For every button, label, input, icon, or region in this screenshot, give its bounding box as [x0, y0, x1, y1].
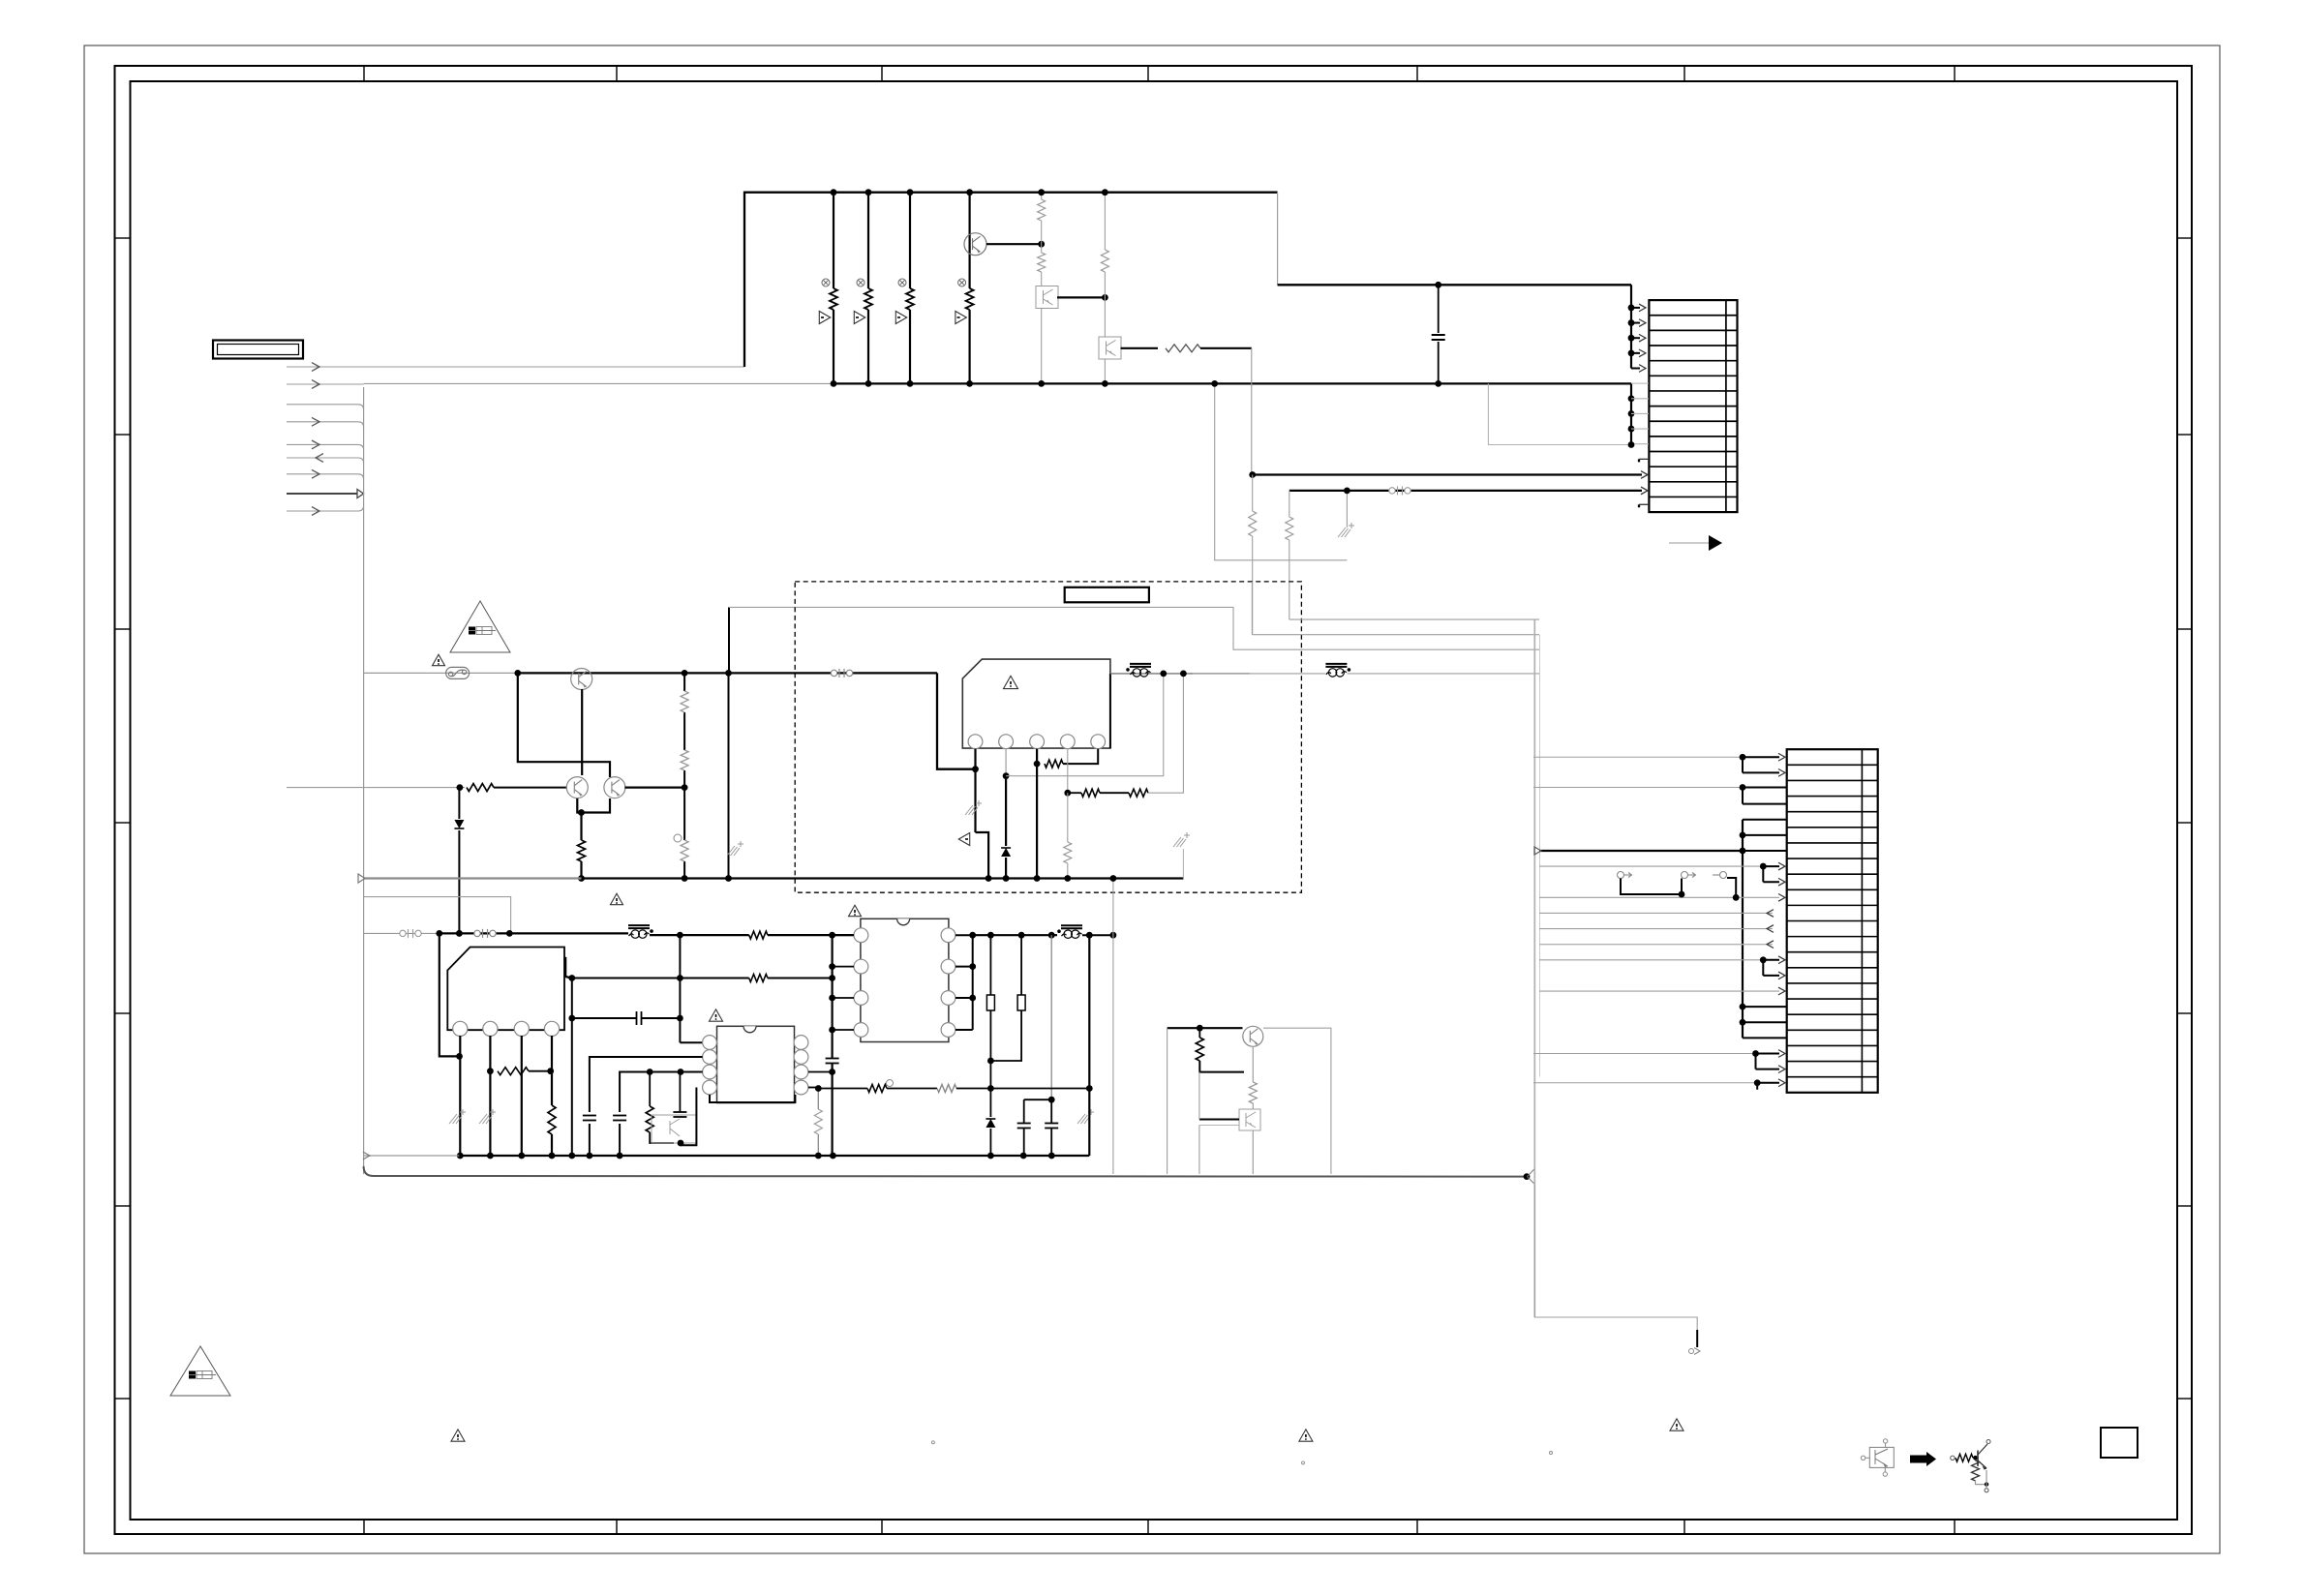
wire bus1-end riser — [1088, 935, 1090, 1156]
wire bottom stub — [1534, 1185, 1697, 1344]
speck dot 1 — [931, 1441, 934, 1444]
fusible resistor R1 — [822, 279, 830, 286]
resistor R8 — [681, 691, 688, 712]
warning triangle bottom 3 — [1670, 1419, 1683, 1430]
transformer T2 — [1325, 663, 1347, 665]
transistor Q2 — [566, 777, 588, 798]
speck dot 2 — [1302, 1461, 1305, 1464]
chassis ground G-sense — [1346, 491, 1348, 527]
fuse F1 — [446, 667, 470, 678]
wire fusible-resistor branch 1 — [833, 193, 834, 288]
resistor R-pin4gnd — [1067, 793, 1069, 842]
row2 line — [572, 978, 749, 979]
wire sense row — [867, 1085, 887, 1093]
snubber line right — [1193, 673, 1325, 675]
speck dot 3 — [1550, 1452, 1553, 1455]
wire stby top — [1168, 1027, 1243, 1029]
wire PC2 output drop — [1251, 348, 1253, 475]
wire IC1 supply — [440, 933, 460, 1056]
wire harness line 3 — [287, 404, 358, 406]
warning triangle IC2 — [849, 905, 862, 916]
IC2 body — [861, 918, 949, 1041]
wire CN2 rows20-21 — [1533, 1053, 1756, 1055]
wire PC3 input — [1199, 1119, 1239, 1121]
wire resistor column x1141 — [1104, 193, 1106, 250]
wire stby drop — [1167, 1028, 1168, 1174]
wire harness line 4 — [287, 421, 358, 423]
wire box wires right — [1251, 582, 1253, 635]
resistor R10 fusible — [674, 834, 682, 842]
jumper link J-a — [986, 995, 994, 1010]
hybrid IC label box — [1065, 587, 1149, 603]
wire IC2 right bus — [955, 934, 973, 936]
wire PC2 output with resistor — [1121, 347, 1159, 349]
fusible link F4 — [474, 930, 480, 936]
chassis ground G-pin1 — [965, 805, 973, 815]
wire feedback riser x753 — [728, 607, 730, 673]
resistor R-q4e — [1249, 1082, 1257, 1103]
wire Q2-Q3 emitter U — [577, 798, 610, 813]
resistor R-in — [749, 931, 768, 939]
transformer T4 — [1061, 924, 1082, 926]
wire CN2 row16 — [1539, 990, 1779, 992]
resistor R-sense2 — [1289, 491, 1290, 517]
output line top — [973, 934, 1057, 936]
wire harness line 7 — [287, 473, 358, 475]
resistor R-q4b — [1198, 1028, 1200, 1038]
chassis ground G-p2 — [479, 1114, 487, 1124]
connector label box CN-A — [213, 341, 303, 359]
warning triangle mid small — [433, 654, 445, 665]
chassis ground G-1296 — [1182, 849, 1184, 879]
main line left segment — [364, 672, 518, 674]
wire IC3 pin3 left — [620, 1072, 703, 1113]
wire snubber row — [1068, 792, 1081, 794]
photocoupler PC3 — [1239, 1109, 1260, 1130]
fusible link F3 — [400, 930, 406, 936]
wire CN1 rows1-5 feed — [1630, 285, 1632, 368]
warning triangle bottom 1 — [451, 1430, 465, 1441]
wire harness line 6 — [287, 457, 358, 459]
transformer T3 — [628, 924, 650, 926]
frame zone tick marks left and right — [115, 237, 131, 239]
warning triangle big bottom-left — [170, 1346, 230, 1396]
CN1 row11 stub — [1638, 459, 1640, 462]
chassis ground G-p1 — [449, 1114, 457, 1124]
wire harness line 9 — [287, 510, 358, 512]
resistor R-s2 — [817, 1089, 819, 1110]
transistor Q1 — [571, 669, 592, 690]
fusible resistor R3 — [898, 279, 906, 286]
resistor R6 mid — [1038, 253, 1046, 272]
wire fusible-resistor branch 2 — [867, 193, 869, 288]
capacitor C-d — [1017, 1123, 1031, 1125]
chassis ground G-752 — [727, 846, 735, 856]
wire CN1 row10 aux feed — [1488, 383, 1631, 444]
transistor Q3 — [604, 777, 625, 798]
wire harness line 2 (to low bus) — [287, 383, 364, 385]
junctions on lower feed — [436, 930, 442, 937]
wire IC0 pin1 — [974, 749, 976, 832]
left vertical bus wire — [363, 387, 365, 1174]
warning triangle IC3 — [710, 1009, 723, 1021]
top bus wire — [744, 193, 1278, 367]
IC0 power hybrid body — [962, 659, 1110, 748]
wire sense column x1254 — [1215, 383, 1348, 559]
CN1 row14 stub — [1638, 504, 1640, 507]
mid return bus — [364, 877, 582, 879]
CN1 rows6-10 pin stubs — [1631, 382, 1649, 384]
wire CN1 row12 feed — [1253, 473, 1642, 475]
wire resistor column x707 — [683, 673, 685, 691]
resistor R7 — [1101, 250, 1108, 272]
wire Q2 base line — [287, 787, 465, 789]
wire to IC3 pin1 — [680, 1041, 702, 1043]
resistor R9 — [681, 750, 688, 770]
wire harness line 8 (heavy) — [287, 493, 357, 495]
wire Q1 bias L — [518, 673, 610, 777]
wire fusible-resistor branch 3 — [909, 193, 911, 288]
capacitor C-e — [1045, 1123, 1058, 1125]
wire CN1 rows6-10 feed — [1630, 383, 1632, 443]
wire Q2 emitter column — [580, 813, 582, 841]
legend equivalent circuit — [1951, 1456, 1955, 1460]
wire resistor column x1075 — [1041, 193, 1043, 199]
fusible resistor R4 — [958, 279, 966, 286]
wire IC0 pin2 feedback — [1006, 674, 1164, 776]
resistor R-fb — [1045, 760, 1063, 768]
wire IC3 pin4 U-link — [710, 1095, 795, 1102]
wire CN2 rows3-4 — [1533, 786, 1743, 788]
chassis ground G-d — [1077, 1114, 1085, 1124]
photocoupler PC2 — [1099, 337, 1121, 359]
revision box — [2101, 1428, 2138, 1458]
capacitor C-row — [636, 1011, 638, 1025]
legend fat arrow — [1910, 1452, 1936, 1466]
wire IC0 right riser — [1109, 674, 1111, 748]
wire harness line 5 — [287, 443, 358, 445]
resistor R-c — [649, 1072, 651, 1107]
jumper chain — [1618, 872, 1624, 879]
wire IC1 pin2 — [489, 1036, 491, 1156]
wire IC0 pin4 — [1067, 749, 1069, 794]
wire CN2 row10 — [1539, 896, 1779, 898]
connector CN2 — [1787, 749, 1878, 1093]
wire CN2 row11 — [1539, 912, 1773, 914]
wire harness line 1 (to top bus) — [287, 366, 744, 368]
IC2 left bus junctions — [829, 932, 835, 939]
wire Q3 collector — [624, 786, 684, 788]
wire left bus IC2 — [831, 935, 833, 1058]
jumper bottom — [1696, 1330, 1698, 1347]
warning triangle pin1 — [958, 833, 969, 846]
warning triangle below bus — [611, 893, 623, 904]
legend transistor pins — [1883, 1439, 1887, 1443]
wire harness bundle — [1533, 619, 1535, 1317]
fusible link F-row13 — [1389, 488, 1395, 494]
ground bus 1 — [364, 1155, 460, 1157]
wire cap pair — [1050, 935, 1052, 1099]
wire CN2 rows8-9 — [1539, 865, 1763, 867]
fusible resistor R2 — [857, 279, 864, 286]
IC1 pins — [453, 1021, 468, 1036]
IC1 regulator body — [447, 948, 564, 1031]
fusible link F2 — [831, 670, 836, 676]
wire PC1 output — [1057, 296, 1105, 298]
ground bus 2 — [364, 1166, 1527, 1177]
diode D3 — [989, 1089, 991, 1118]
legend arrow below CN1 — [1669, 542, 1709, 544]
wire IC0 pin3 — [1036, 749, 1038, 879]
capacitor C-top — [1438, 285, 1440, 333]
legend transistor box — [1869, 1447, 1894, 1467]
transistor Q4 — [1243, 1026, 1263, 1046]
wire CN2 row12 — [1539, 928, 1773, 930]
warning triangle IC0 — [1004, 676, 1018, 688]
dashed isolation box — [795, 582, 1301, 892]
bus2 end flare — [1528, 1169, 1535, 1177]
wire CN2 row13 — [1539, 944, 1773, 946]
warning triangle at R4 — [955, 312, 966, 324]
jumper link J-b — [1017, 995, 1025, 1010]
connector CN1 — [1649, 300, 1737, 512]
capacitor C-c — [679, 1072, 681, 1113]
photocoupler PC4 — [652, 1115, 696, 1143]
resistor R-p4 — [548, 1105, 556, 1134]
wire T4 right — [1082, 934, 1113, 936]
warning triangle big (mid) — [450, 601, 510, 652]
IC3 pins — [703, 1036, 717, 1050]
warning triangle bottom 2 — [1299, 1430, 1313, 1441]
wire CN1 row13 feed — [1289, 490, 1642, 492]
lower feed line — [364, 932, 440, 934]
top block bottom bus wire — [834, 382, 1631, 384]
wire fusible-resistor branch 4 — [968, 193, 970, 288]
resistor R-p2p4 — [498, 1068, 529, 1075]
wire CN2 rows21-22 — [1533, 1082, 1757, 1084]
IC0 pins — [968, 735, 983, 749]
resistor R-q2base — [467, 784, 494, 792]
wire IC1 pin3 — [521, 1036, 523, 1156]
wire Q4 emitter — [1252, 1046, 1254, 1082]
wire standby feed jog — [364, 897, 511, 934]
resistor R-q2e — [578, 840, 586, 861]
resistor R5 top — [1038, 199, 1046, 221]
wire Q-top base — [986, 243, 1042, 245]
wire PC3 return — [1199, 1125, 1239, 1127]
warning triangle at R3 — [895, 312, 906, 324]
main line drop to IC pin1 — [937, 673, 976, 768]
wire CN2 row7 main — [1539, 850, 1743, 852]
wire CN2 rows14-15 — [1539, 959, 1763, 961]
capacitor C-ic2 — [826, 1058, 839, 1060]
wire box wire row 640 — [1289, 618, 1539, 620]
wire Q1 emitter — [581, 689, 583, 775]
wire IC1 pin4 — [551, 1036, 553, 1105]
capacitor C-b — [613, 1115, 626, 1117]
IC3 opto-driver body — [717, 1026, 795, 1102]
diode D1 — [458, 788, 460, 819]
IC2 pins and stubs — [854, 928, 868, 943]
frame zone tick marks top and bottom — [363, 66, 365, 81]
wire IC3 pin3R link — [808, 1071, 833, 1073]
degaussing bus low wire — [364, 382, 834, 384]
wire IC3 pin2 left — [590, 1057, 703, 1112]
CN1 rows1-5 pin stubs — [1628, 305, 1635, 312]
transistor Q-top — [964, 233, 986, 256]
capacitor C-a — [583, 1115, 596, 1117]
cap row line — [572, 1017, 637, 1019]
wire x1149 drop — [1112, 879, 1114, 1175]
wire PC4 hook — [681, 1088, 696, 1146]
wire IC1 pin1 — [459, 1036, 461, 1156]
wire dashed-to-lower drop — [564, 957, 567, 977]
transformer T1 — [1130, 663, 1151, 665]
wire x702 column — [679, 935, 681, 1042]
wire IC0 pin2 — [1005, 749, 1007, 776]
main line heavy segment — [518, 672, 937, 674]
resistor R-row2 — [749, 975, 768, 982]
photocoupler PC1 — [1036, 286, 1058, 309]
wire Q4 collector right — [1263, 1028, 1331, 1174]
wire CN2 rows1-2 — [1533, 756, 1743, 758]
snubber line — [1110, 673, 1250, 675]
diode D2 — [1001, 848, 1011, 857]
wire column x752 — [728, 673, 730, 878]
wire CN2 common feed — [1742, 820, 1744, 1039]
warning triangle at R1 — [819, 312, 830, 324]
warning triangle at R2 — [854, 312, 864, 324]
resistor R-sense1 — [1252, 475, 1254, 512]
